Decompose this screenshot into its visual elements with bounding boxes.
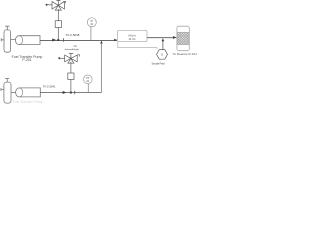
- flow arrow on bottom pipe: [63, 91, 67, 94]
- riser arrow up at top junction: [100, 40, 102, 43]
- V2 top-right mark: [77, 55, 79, 57]
- svg-text:TV-C-5048: TV-C-5048: [65, 33, 79, 37]
- svg-text:S: S: [161, 52, 163, 56]
- control valve V2 stub: [58, 57, 60, 59]
- svg-text:M-01: M-01: [129, 37, 136, 41]
- column R-101: [177, 26, 189, 51]
- control valve V1 bowtie: [52, 2, 64, 9]
- riser pipe: [100, 43, 102, 93]
- tank T2 left nozzle: [1, 88, 4, 91]
- PT bubble bottom: [84, 75, 93, 84]
- V2 stem to pipe: [70, 80, 72, 93]
- pump P2 (bottom horizontal cylinder): [16, 88, 41, 97]
- junction dot top valve tee: [57, 39, 59, 41]
- svg-text:Sample Point: Sample Point: [151, 62, 165, 66]
- flow arrow on top pipe: [52, 39, 56, 42]
- V1 actuator stem: [56, 0, 60, 5]
- V1 solenoid box: [55, 21, 61, 28]
- svg-text:Fuel Transfer Pump: Fuel Transfer Pump: [13, 100, 44, 104]
- tank T2 top nozzle: [5, 78, 9, 82]
- V1 stem down: [57, 9, 59, 21]
- V1 stem to pipe: [57, 28, 59, 41]
- svg-text:P-201: P-201: [22, 58, 31, 62]
- pump P1 (top horizontal cylinder): [15, 36, 40, 45]
- V2 actuator stem: [69, 53, 73, 58]
- sample point hexagon: [157, 50, 168, 60]
- pipe tank T1 to pump P1: [11, 39, 16, 41]
- V2 stem down: [70, 62, 72, 73]
- V2 down port triangle: [68, 58, 74, 63]
- gray connector mixer to sample point: [118, 42, 157, 50]
- main pipe top train: [40, 39, 117, 41]
- tank T1 top nozzle: [5, 26, 9, 30]
- tank T1 (top gas bottle): [4, 30, 11, 52]
- V1 down port triangle: [55, 5, 61, 10]
- svg-text:TV-C-5041: TV-C-5041: [43, 84, 56, 88]
- PI bubble top: [87, 18, 96, 27]
- control valve V2 bowtie: [65, 55, 78, 62]
- hexagon to pipe arrow: [162, 41, 164, 50]
- main pipe bottom train: [40, 92, 101, 94]
- PI bubble top stub: [90, 27, 92, 41]
- arrow into column: [173, 36, 177, 39]
- tank T1 left nozzle: [1, 38, 4, 41]
- column packing: [177, 32, 188, 44]
- pipe tank T2 to pump P2: [11, 92, 16, 94]
- V2 solenoid box: [68, 73, 74, 80]
- svg-text:To Reactor R-101: To Reactor R-101: [173, 52, 198, 56]
- mixer box M-01: [118, 31, 148, 42]
- tick after top junction: [63, 38, 65, 42]
- tank T2 (bottom gas bottle): [4, 82, 11, 103]
- V1 top-right mark: [63, 1, 65, 3]
- pipe mixer to column: [147, 37, 173, 39]
- arrow into mixer: [114, 39, 117, 41]
- control valve V1 stub: [46, 4, 48, 6]
- tick after bottom junction: [74, 91, 76, 95]
- svg-text:(Instrument Air Supply): (Instrument Air Supply): [65, 48, 80, 51]
- junction dot bottom valve tee: [70, 91, 72, 93]
- PT bubble bottom stub: [87, 83, 89, 92]
